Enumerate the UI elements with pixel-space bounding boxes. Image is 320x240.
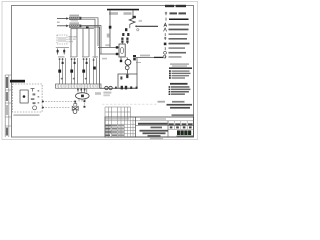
wire: starter outputs	[120, 57, 122, 62]
motor M1	[125, 59, 131, 65]
instrument cabinet dashed box	[12, 84, 42, 112]
stamp name text line dark	[138, 123, 168, 125]
cable riser b	[76, 28, 78, 57]
gauge P1	[105, 86, 108, 89]
wire left riser	[99, 28, 101, 89]
legend item 5 symbol	[164, 33, 166, 36]
legend item 9 symbol	[164, 51, 167, 54]
sensor group 3 contacts	[82, 70, 85, 73]
wiring dots	[38, 90, 40, 92]
controller A1	[20, 90, 28, 103]
cable gland W2	[70, 25, 80, 28]
connector lower ticks	[79, 99, 85, 101]
stadia header texts	[169, 123, 174, 125]
drawing frame border	[12, 6, 194, 138]
sensor group 1 contacts	[58, 70, 61, 73]
contact pair	[121, 86, 123, 90]
sensor group 1 wires	[60, 58, 66, 84]
notes block 1 lines	[169, 70, 171, 72]
legend item 8 text	[169, 47, 186, 49]
stamp designation text faint	[140, 118, 166, 120]
label near feed	[105, 44, 109, 46]
stadia column lines	[168, 121, 194, 130]
label W1	[70, 15, 80, 17]
cable riser c	[82, 28, 84, 57]
wire gland2 out	[81, 26, 101, 54]
label small	[57, 22, 60, 23]
legend item 10 text	[169, 56, 182, 58]
wire sensor line	[136, 57, 163, 59]
stamp name line 1	[140, 130, 169, 132]
wire from ZF	[59, 44, 99, 47]
legend item 2 symbol	[165, 18, 167, 21]
legend item 4 text	[169, 29, 189, 31]
label ZF	[69, 36, 73, 38]
A1 side marks	[31, 89, 35, 92]
gauge P2	[109, 86, 112, 89]
print line below stamp	[150, 138, 163, 139]
legend item 7 text	[169, 43, 190, 45]
stamp name line 2	[143, 132, 166, 134]
sensor group 2 wires	[72, 58, 78, 84]
label W2	[70, 22, 80, 24]
fuse F1	[57, 49, 59, 55]
terminal blob	[116, 46, 118, 48]
cable gland W1	[70, 17, 80, 20]
sensor group 2 contacts	[70, 70, 73, 73]
label above sensor wire	[140, 55, 150, 57]
valve Y1	[72, 106, 78, 110]
caption under cabinet	[14, 114, 40, 116]
label KM1	[107, 34, 111, 38]
meter circle	[33, 106, 37, 110]
panel label bar	[10, 80, 25, 83]
wire right riser	[136, 58, 138, 74]
wire: drop from bus	[109, 10, 111, 47]
dashed signal line 1	[43, 101, 77, 103]
stamp dogovor text	[151, 127, 163, 129]
wire from connector	[84, 101, 86, 107]
cable riser d	[88, 28, 90, 57]
wire bottom run	[100, 87, 137, 89]
connector XP1 ticks	[78, 88, 87, 92]
company logo	[177, 130, 191, 135]
bus label left	[109, 12, 118, 15]
sensor B1	[133, 55, 136, 57]
outgoing line tap	[135, 25, 137, 27]
legend item 2 line sample	[169, 18, 189, 20]
label QF1	[139, 20, 142, 22]
frame side column	[4, 75, 6, 137]
notes block 3 lines	[167, 104, 193, 106]
legend heading	[165, 5, 174, 7]
bus label right	[124, 12, 132, 15]
faint cable note line	[102, 103, 158, 105]
legend item 6 symbol	[164, 37, 166, 40]
stamp header texts	[105, 118, 129, 119]
legend item 1 symbol	[165, 12, 167, 15]
cable riser a	[70, 28, 72, 57]
terminal blob	[116, 53, 118, 55]
notes block 1 heading	[170, 63, 189, 64]
legend item 5 text	[169, 33, 188, 35]
connector XP1	[76, 93, 90, 99]
corner blob	[136, 87, 138, 89]
wire: lower feed	[100, 53, 119, 55]
surge box ZF dashed	[57, 35, 67, 44]
logo underline	[177, 135, 194, 137]
legend item 1 text	[170, 12, 178, 14]
sensor group 4 contact	[93, 67, 96, 70]
signal end blob	[74, 101, 76, 103]
legend item 9 text	[169, 52, 187, 54]
label tick	[136, 62, 141, 64]
wire motor down	[126, 70, 128, 74]
notes block 1 rule	[169, 67, 192, 69]
wire: breaker feed from bus	[132, 10, 134, 16]
terminal X1 on drop	[109, 26, 112, 29]
terminal numbers	[57, 85, 58, 87]
doc number above stamp	[172, 114, 195, 116]
label near starter	[119, 56, 125, 58]
stamp right divider	[167, 121, 169, 137]
legend item 8 symbol	[164, 47, 166, 50]
fuse F2	[63, 49, 65, 55]
cable core dots	[59, 58, 61, 60]
notes block 3 heading	[172, 101, 185, 103]
stamp left row lines	[105, 124, 136, 134]
sensor end circle	[163, 55, 166, 58]
legend item 10 symbol	[164, 56, 166, 59]
wire gland1 out	[81, 18, 98, 46]
notes block 2 lines	[169, 86, 171, 88]
title block stamp frame	[105, 117, 194, 137]
terminal strip XT1	[56, 84, 102, 88]
power bus 380V	[107, 9, 139, 11]
legend item 7 symbol	[164, 43, 167, 46]
breaker QF1	[133, 16, 136, 18]
sensor column labels	[58, 56, 65, 58]
thermal relay dot	[137, 29, 139, 31]
legend item 6 text	[169, 38, 188, 40]
cable gland W2 arrow	[57, 25, 67, 27]
junction	[130, 86, 132, 89]
stamp left cell texts	[105, 125, 111, 127]
legend item 3 symbol	[164, 23, 167, 26]
legend item 3 text	[169, 24, 190, 26]
small label	[102, 58, 107, 60]
stamp major divider	[135, 117, 137, 137]
wire: feed to starter	[98, 46, 119, 48]
sheet outer edge	[2, 2, 198, 140]
side column rotated text	[6, 77, 8, 88]
title block revision grid	[105, 107, 131, 117]
stamp name row line	[136, 125, 194, 127]
sensor group 4 wires	[94, 58, 97, 84]
dashed signal line 2	[43, 107, 71, 109]
control box KL1	[118, 74, 137, 88]
notes block 2 heading	[170, 83, 188, 85]
junction blob	[86, 26, 89, 28]
stamp name line 3	[148, 135, 161, 137]
stamp left columns	[108, 117, 133, 137]
stamp header row line	[105, 120, 194, 122]
pump circle	[125, 66, 129, 70]
wire to outgoing feeder	[137, 25, 158, 27]
legend item 4 symbol	[164, 28, 167, 31]
valve Y1 actuator box	[74, 104, 77, 107]
sensor group 3 wires	[84, 58, 90, 84]
wire gland2 out2	[81, 27, 99, 29]
stadia values	[170, 126, 173, 128]
wire bottom of glands	[71, 27, 94, 29]
cable gland W1 arrow	[57, 18, 67, 20]
wire gland1 out2	[81, 19, 95, 58]
contactor KM1 contacts	[125, 28, 127, 31]
soft starter U1	[119, 44, 125, 57]
valve drive	[73, 110, 77, 114]
label under run	[95, 92, 101, 95]
contact tick	[115, 87, 117, 89]
